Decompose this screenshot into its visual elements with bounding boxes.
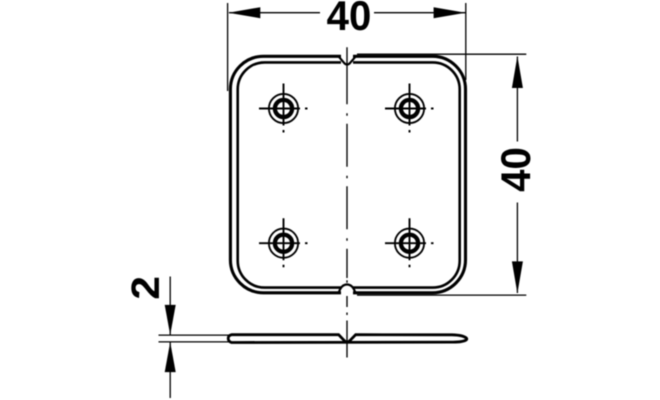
hole top-left counterbore ring	[275, 100, 292, 117]
hole bottom-right outer circle	[395, 229, 424, 258]
top dim extension line left	[227, 3, 229, 91]
thickness dim line upper segment	[169, 277, 171, 335]
right dim line bottom segment	[516, 203, 518, 294]
hole top-right centermark horizontal	[385, 108, 434, 110]
plate inner contour	[238, 62, 460, 287]
hole bottom-left centermark vertical	[283, 218, 285, 267]
hole bottom-left counterbore ring	[275, 235, 292, 252]
notch eraser top	[341, 50, 353, 66]
hole top-left centermark vertical	[283, 84, 285, 133]
top dim arrow right	[434, 7, 466, 18]
plan view vertical centerline	[346, 47, 348, 307]
hole top-right outer circle	[395, 94, 424, 123]
thickness dim extension line top	[159, 334, 230, 336]
hole top-left outer circle	[269, 94, 298, 123]
right dim arrow top	[512, 56, 523, 88]
hole top-right centermark vertical	[409, 84, 411, 133]
notch eraser bottom	[341, 283, 353, 299]
hole bottom-left outer circle	[269, 229, 298, 258]
top dim line left segment	[229, 12, 320, 14]
side view profile	[228, 335, 467, 343]
thickness dim line lower segment	[169, 342, 171, 398]
hole bottom-right centermark vertical	[409, 218, 411, 267]
right dim extension line top	[357, 53, 526, 55]
plate outer contour	[230, 56, 465, 292]
top dim arrow left	[228, 7, 260, 18]
thickness dim arrow top	[165, 305, 176, 335]
hole bottom-right centermark horizontal	[385, 242, 434, 244]
thickness dim text 2	[131, 278, 159, 299]
hole top-right counterbore ring	[401, 100, 418, 117]
side view vertical centerline	[346, 313, 348, 358]
hole bottom-left centermark horizontal	[259, 242, 308, 244]
top dim extension line right	[465, 3, 467, 80]
thickness dim arrow bottom	[165, 342, 176, 372]
right dim text 40	[501, 149, 531, 192]
notch top	[338, 56, 356, 64]
right dim arrow bottom	[512, 261, 523, 293]
thickness dim extension line bottom	[159, 341, 230, 343]
notch bottom	[339, 285, 356, 294]
top dim line right segment	[374, 12, 466, 14]
hole bottom-right counterbore ring	[401, 235, 418, 252]
right dim line top segment	[516, 57, 518, 142]
top dim text 40	[327, 1, 370, 31]
right dim extension line bottom	[357, 294, 526, 296]
hole top-left centermark horizontal	[259, 108, 308, 110]
